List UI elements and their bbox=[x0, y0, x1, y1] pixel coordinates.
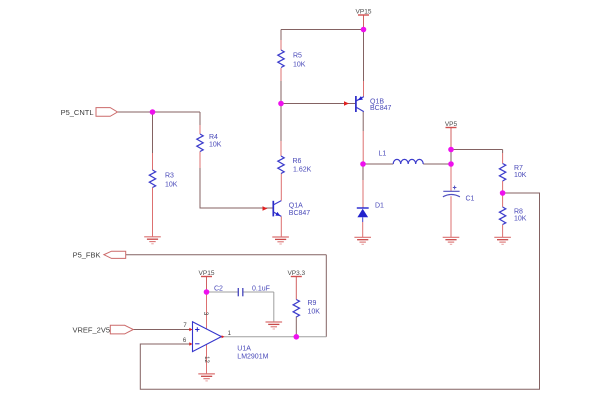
wire Q1B collector pin bbox=[363, 81, 365, 97]
wire R7 bottom to R8 top bbox=[502, 181, 504, 207]
wire R8 bottom to ground bbox=[502, 225, 504, 238]
wire C2 right to ground bbox=[243, 292, 274, 322]
port P5_FBK bbox=[104, 251, 126, 258]
wire C1 top pin bbox=[450, 164, 452, 191]
wire R9 bottom to output node bbox=[295, 317, 297, 337]
ground below R3 bbox=[144, 236, 161, 238]
transistor Q1A bbox=[272, 201, 274, 217]
node R5-R6 base junction bbox=[278, 101, 284, 107]
wire VREF to pin 7 bbox=[133, 329, 192, 331]
wire VP15 stub at C2 bbox=[206, 277, 208, 293]
port VREF_2V5 bbox=[110, 325, 133, 334]
wire R6 top pin bbox=[280, 141, 282, 156]
svg-text:P5_CNTL: P5_CNTL bbox=[61, 108, 94, 117]
svg-text:LM2901M: LM2901M bbox=[237, 354, 268, 361]
svg-text:10K: 10K bbox=[209, 142, 222, 149]
inductor L1 bbox=[393, 159, 423, 164]
svg-text:0.1uF: 0.1uF bbox=[252, 286, 270, 293]
wire R4 bottom pin bbox=[199, 152, 201, 169]
svg-text:1.62K: 1.62K bbox=[293, 167, 312, 174]
node R7-R8 divider junction bbox=[500, 190, 506, 196]
resistor R5 bbox=[278, 50, 284, 68]
resistor R6 bbox=[278, 156, 284, 174]
wire R5 top pin bbox=[280, 40, 282, 50]
ground below Q1A emitter bbox=[272, 236, 289, 238]
wire R3 to ground bbox=[152, 188, 154, 237]
wire VP15 stub bbox=[363, 15, 365, 30]
svg-text:C2: C2 bbox=[214, 286, 223, 293]
wire junction to R3 upper bbox=[152, 112, 154, 153]
resistor R7 bbox=[499, 164, 505, 182]
svg-text:10K: 10K bbox=[165, 182, 178, 189]
ground below op-amp pin 12 bbox=[198, 373, 215, 375]
wire node to D1 bbox=[362, 164, 364, 180]
svg-text:P5_FBK: P5_FBK bbox=[73, 251, 101, 260]
resistor R9 bbox=[293, 300, 299, 318]
svg-text:R8: R8 bbox=[514, 209, 523, 216]
svg-text:U1A: U1A bbox=[237, 346, 251, 353]
node R9-output junction bbox=[294, 334, 300, 340]
svg-text:R5: R5 bbox=[293, 53, 302, 60]
op-amp U1A bbox=[193, 322, 222, 352]
wire R4 bottom to Q1A base bbox=[200, 168, 273, 208]
svg-text:Q1A: Q1A bbox=[289, 203, 303, 210]
svg-text:R3: R3 bbox=[165, 173, 174, 180]
wire D1 to ground bbox=[362, 222, 364, 237]
node P5_CNTL junction bbox=[150, 109, 156, 115]
wire pin 12 to ground bbox=[206, 344, 208, 374]
wire P5_CNTL net horizontal bbox=[118, 111, 201, 113]
svg-text:C1: C1 bbox=[466, 195, 475, 202]
svg-text:R6: R6 bbox=[293, 158, 302, 165]
svg-text:BC847: BC847 bbox=[370, 105, 392, 112]
wire D1 top pin bbox=[362, 180, 364, 208]
wire node to C2 left bbox=[207, 291, 238, 293]
wire R6 top to node bbox=[280, 104, 282, 142]
wire P5_FBK net bbox=[126, 254, 327, 256]
wire R5 bottom pin bbox=[280, 68, 282, 81]
transistor Q1B bbox=[355, 96, 357, 112]
wire top rail to VP15 node bbox=[281, 29, 364, 31]
wire VP5 node to R7 top bbox=[451, 150, 503, 154]
svg-text:D1: D1 bbox=[375, 202, 384, 209]
svg-text:7: 7 bbox=[183, 323, 187, 329]
wire VP15 node to Q1B collector upper bbox=[363, 30, 365, 82]
svg-text:VP5: VP5 bbox=[445, 121, 458, 128]
node VP15-C2 junction bbox=[204, 289, 210, 295]
diode D1 bbox=[357, 207, 369, 209]
wire R5 top bbox=[280, 30, 282, 41]
svg-text:1: 1 bbox=[228, 331, 232, 337]
wire to R4 top bbox=[199, 112, 201, 125]
ground below C1 bbox=[443, 236, 460, 238]
wire VP5 stub down bbox=[450, 128, 452, 150]
svg-text:VP15: VP15 bbox=[356, 8, 372, 15]
node VP5 upper junction bbox=[448, 147, 454, 153]
op-amp output pin marker bbox=[222, 335, 225, 338]
wire C1 to ground bbox=[450, 196, 452, 237]
wire feedback loop divider to pin 6 bbox=[140, 193, 539, 389]
wire L1 right to VP5 column bbox=[423, 163, 451, 165]
wire R3 top pin bbox=[152, 153, 154, 170]
svg-text:6: 6 bbox=[183, 338, 187, 344]
wire node to L1 left bbox=[363, 163, 393, 165]
svg-text:10K: 10K bbox=[293, 62, 306, 69]
op-amp pin 6 marker bbox=[189, 342, 192, 345]
node VP15 top junction bbox=[361, 27, 367, 33]
capacitor C2 bbox=[237, 288, 239, 296]
op-amp pin 7 marker bbox=[189, 328, 192, 331]
port P5_CNTL bbox=[96, 108, 118, 117]
svg-text:L1: L1 bbox=[379, 151, 387, 158]
wire pin 3 vertical bbox=[206, 292, 208, 329]
wire P5_FBK down to output node bbox=[325, 255, 327, 337]
wire R7 top pin bbox=[502, 153, 504, 164]
resistor R4 bbox=[197, 134, 203, 152]
wire Q1A collector to R6 bbox=[280, 174, 282, 201]
wire Q1B emitter down bbox=[362, 112, 364, 131]
wire VP3.3 to R9 top bbox=[295, 277, 297, 300]
svg-text:10K: 10K bbox=[514, 172, 527, 179]
wire node to Q1B base bbox=[281, 103, 355, 105]
resistor R8 bbox=[499, 207, 505, 225]
svg-text:VP3.3: VP3.3 bbox=[287, 270, 305, 277]
ground below R8 bbox=[494, 236, 511, 238]
wire opamp output line bbox=[221, 336, 326, 338]
wire Q1B emitter pin to L1 node bbox=[362, 131, 364, 164]
wire D1 bottom stub bbox=[362, 217, 364, 222]
wire R4 top pin bbox=[199, 125, 201, 134]
svg-text:12: 12 bbox=[203, 356, 209, 363]
resistor R3 bbox=[149, 170, 155, 188]
ground below D1 bbox=[354, 236, 371, 238]
svg-text:BC847: BC847 bbox=[289, 210, 311, 217]
svg-text:VREF_2V5: VREF_2V5 bbox=[72, 326, 110, 335]
wire R5 bottom to node bbox=[280, 81, 282, 104]
ground below C2 bbox=[266, 321, 283, 323]
svg-text:10K: 10K bbox=[514, 216, 527, 223]
svg-text:VP15: VP15 bbox=[199, 270, 215, 277]
svg-text:R4: R4 bbox=[209, 134, 218, 141]
node L1-D1 junction bbox=[360, 161, 366, 167]
node VP5 lower junction bbox=[448, 161, 454, 167]
svg-text:10K: 10K bbox=[308, 309, 321, 316]
svg-text:R9: R9 bbox=[308, 300, 317, 307]
wire Q1A emitter to ground bbox=[280, 216, 282, 237]
capacitor C1 bbox=[443, 190, 459, 192]
wire VP5 node down bbox=[450, 150, 452, 165]
